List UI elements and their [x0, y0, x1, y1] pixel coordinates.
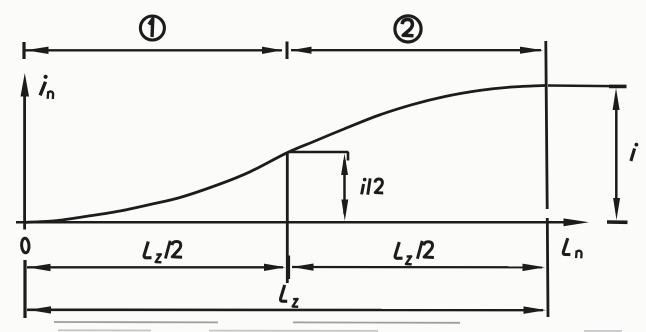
dimension extension tick left top (x=24) — [22, 42, 25, 59]
arrowhead right — [523, 264, 546, 272]
right extension line (lower part, after scan gap) — [546, 218, 550, 317]
axis label i_n — [40, 75, 53, 99]
arrowhead right of dimension 2 — [520, 47, 543, 54]
arrowhead left of dimension 2 — [291, 47, 312, 54]
mid extension line at Lz/2 (x=287.3) — [286, 153, 289, 284]
half-value horizontal line (i/2 level) — [288, 151, 349, 154]
i/2 dimension double arrow — [341, 154, 348, 221]
arrowhead right toward mid tick — [264, 264, 286, 271]
plateau extension line to i dimension — [548, 84, 624, 87]
label i — [631, 143, 638, 161]
label Lz/2 left — [144, 241, 182, 263]
scan artifact streak 2 (y=330.5) — [58, 329, 622, 332]
arrowhead left of dimension 1 — [26, 47, 49, 54]
left extension line bottom (x=25) — [23, 260, 26, 318]
dimension line 1 (top, segment 1) — [25, 49, 282, 51]
dimension row Lz/2 left segment — [27, 266, 283, 268]
dimension line 2 (top, segment 2) — [291, 49, 541, 51]
arrowhead left — [28, 264, 51, 271]
arrowhead right — [524, 306, 547, 314]
dimension row Lz (full width) — [27, 308, 543, 311]
mid extension tick bottom (x=288.6) — [287, 256, 290, 280]
top tick of i dimension — [609, 85, 627, 89]
i dimension double arrow (right) — [613, 88, 621, 220]
circled label 1 — [140, 16, 164, 40]
origin label 0 — [21, 238, 29, 253]
label Lz/2 right — [395, 241, 434, 264]
arrowhead left toward mid tick — [292, 264, 314, 271]
y-axis arrowhead — [21, 73, 30, 97]
right extension line (x=546, upper part) — [546, 41, 547, 209]
dimension mid tick (x=287) — [286, 42, 289, 60]
axis label L_n — [563, 238, 581, 258]
scan artifact streak 1 (y=322) — [54, 321, 460, 324]
dimension row Lz/2 right segment — [292, 266, 542, 269]
circled label 2 — [395, 16, 421, 42]
arrowhead left — [29, 306, 52, 313]
label Lz — [280, 285, 298, 307]
y-axis (vertical axis) — [23, 90, 26, 230]
arrowhead right of dimension 1 — [262, 47, 283, 54]
induction curve (sigmoid) — [25, 85, 547, 222]
bottom tick of i dimension — [607, 220, 628, 224]
label i/2 — [362, 178, 384, 195]
x-axis (horizontal axis) — [16, 221, 566, 224]
tick at end of half-value line — [347, 152, 350, 161]
x-axis arrowhead — [564, 218, 590, 226]
